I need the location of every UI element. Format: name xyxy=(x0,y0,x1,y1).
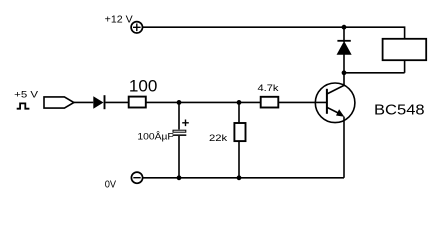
svg-text:4.7k: 4.7k xyxy=(258,83,280,93)
svg-text:+5 V: +5 V xyxy=(14,89,39,100)
svg-text:22k: 22k xyxy=(209,133,228,143)
svg-text:0V: 0V xyxy=(105,179,117,190)
svg-text:100ÂµF: 100ÂµF xyxy=(137,131,174,141)
svg-text:BC548: BC548 xyxy=(374,103,425,119)
svg-text:100: 100 xyxy=(129,78,158,96)
svg-text:+12 V: +12 V xyxy=(105,15,134,26)
